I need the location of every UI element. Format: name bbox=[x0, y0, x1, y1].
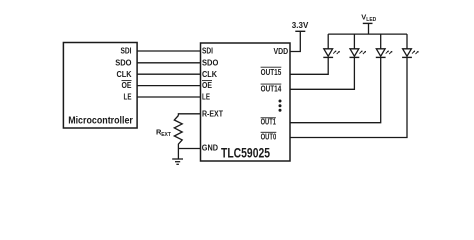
microcontroller box U2 bbox=[63, 43, 137, 129]
wire LED4 cathode to OUT0 bbox=[290, 57, 407, 137]
svg-text:OUT0: OUT0 bbox=[261, 133, 277, 142]
wire LE bbox=[137, 96, 200, 98]
wire GND bbox=[178, 148, 200, 150]
svg-text:CLK: CLK bbox=[202, 70, 217, 79]
wire OE bbox=[137, 85, 200, 87]
wire SDI bbox=[137, 50, 200, 52]
svg-text:OUT1: OUT1 bbox=[261, 117, 277, 126]
wire CLK bbox=[137, 73, 200, 75]
wire LED supply rail bbox=[328, 33, 407, 35]
wire VDD to 3.3V bbox=[290, 31, 300, 51]
svg-text:OE: OE bbox=[122, 81, 133, 90]
wire LED2 anode bbox=[353, 34, 355, 49]
wire LED2 cathode to OUT14 bbox=[290, 57, 354, 89]
svg-text:OE: OE bbox=[202, 81, 213, 90]
LED D2 bbox=[350, 49, 367, 58]
svg-text:LE: LE bbox=[202, 93, 211, 102]
wire LED1 anode bbox=[327, 34, 329, 49]
ground symbol bbox=[177, 149, 179, 160]
wire SDO bbox=[137, 62, 200, 64]
wire LED1 cathode to OUT15 bbox=[290, 57, 328, 74]
LED D1 bbox=[323, 49, 340, 58]
wire R-EXT pin to resistor bbox=[178, 114, 200, 116]
LED D3 bbox=[376, 49, 393, 58]
driver IC U1 TLC59025 box bbox=[201, 43, 291, 161]
svg-text:LE: LE bbox=[124, 93, 133, 102]
svg-text:Microcontroller: Microcontroller bbox=[68, 116, 133, 127]
svg-text:SDI: SDI bbox=[121, 47, 132, 56]
resistor R_EXT zigzag bbox=[174, 116, 182, 149]
supply V_LED T-bar bbox=[363, 22, 373, 24]
svg-text:OUT15: OUT15 bbox=[261, 68, 282, 77]
supply 3.3V T-bar bbox=[295, 30, 305, 32]
svg-text:GND: GND bbox=[202, 144, 218, 153]
svg-text:SDO: SDO bbox=[115, 58, 131, 67]
wire LED4 anode bbox=[406, 34, 408, 49]
svg-text:VDD: VDD bbox=[274, 47, 289, 56]
svg-text:SDI: SDI bbox=[202, 47, 213, 56]
svg-text:SDO: SDO bbox=[202, 58, 218, 67]
svg-text:3.3V: 3.3V bbox=[292, 20, 309, 30]
ellipsis dots (more outputs) bbox=[279, 100, 282, 103]
svg-text:R-EXT: R-EXT bbox=[202, 110, 223, 119]
svg-text:CLK: CLK bbox=[117, 70, 132, 79]
svg-text:OUT14: OUT14 bbox=[261, 85, 282, 94]
svg-text:LED: LED bbox=[366, 17, 376, 23]
svg-text:TLC59025: TLC59025 bbox=[221, 146, 270, 161]
wire LED3 anode bbox=[380, 34, 382, 49]
wire LED3 cathode to OUT1 bbox=[290, 57, 381, 122]
LED D4 bbox=[402, 49, 419, 58]
svg-text:EXT: EXT bbox=[161, 132, 171, 138]
wire V_LED drop bbox=[368, 23, 370, 34]
